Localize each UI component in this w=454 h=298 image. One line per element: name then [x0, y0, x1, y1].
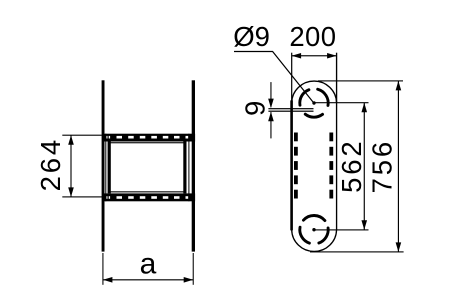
svg-text:562: 562 [336, 139, 367, 193]
svg-text:a: a [140, 248, 157, 281]
dimension 264: top extension line [62, 135, 102, 136]
dimension 9: dimension line upper segment [270, 82, 271, 107]
svg-text:9: 9 [240, 101, 271, 116]
dimension 756: arrow up [396, 81, 402, 91]
dimension 756: dimension line [398, 81, 399, 252]
side rail left [102, 80, 105, 251]
dimension 562: arrow down [361, 220, 367, 230]
svg-text:756: 756 [367, 139, 398, 193]
dimension a: left extension line [102, 253, 103, 285]
plate left edge (thick) [290, 100, 293, 230]
dimension 9: lower extension line [268, 111, 313, 112]
dimension a: dimension line [103, 279, 193, 280]
dimension 200: arrow right [327, 53, 337, 59]
label Ø9 leader line [234, 52, 313, 103]
plate slots right column [329, 133, 333, 199]
rung bottom flange (perforated band) [102, 193, 195, 201]
dimension 264: dimension line [70, 135, 71, 197]
rung end edge line left [105, 134, 106, 202]
side rail right [192, 80, 195, 251]
top hole arcs [300, 89, 328, 117]
svg-text:200: 200 [289, 21, 336, 52]
plate top cap arc [292, 81, 337, 103]
rung end edge line right [188, 134, 189, 202]
rung top flange (perforated band) [102, 134, 195, 142]
plate right edge + 200 right extension line [336, 53, 337, 230]
dimension 200: arrow left [292, 53, 302, 59]
dimension 9: arrow down [268, 99, 274, 109]
dimension 562: arrow up [361, 103, 367, 113]
dimension 9: arrow up [268, 112, 274, 122]
rung web top edge [108, 142, 184, 143]
dimension 562: top extension line [314, 102, 369, 103]
bottom hole arcs [300, 216, 328, 244]
dimension 9: upper extension line [268, 108, 313, 109]
top hole center dot [312, 101, 315, 104]
dimension 562: dimension line [364, 103, 365, 230]
svg-text:Ø9: Ø9 [233, 21, 270, 52]
dimension 264: arrow up [68, 135, 74, 145]
dimension 9: dimension line lower segment [270, 112, 271, 138]
200 left extension line [291, 53, 292, 102]
dimension a: arrow right [184, 277, 194, 283]
svg-text:264: 264 [35, 137, 66, 191]
dimension 756: bottom extension line [310, 251, 404, 252]
dimension 756: arrow down [396, 242, 402, 252]
plate slots left column [294, 133, 298, 199]
rung top flange perforation dashes [106, 136, 188, 139]
dimension a: right extension line [193, 253, 194, 285]
dimension 264: bottom extension line [62, 196, 103, 197]
rung side wall right [183, 142, 186, 194]
dimension 264: arrow down [68, 187, 74, 197]
rung web bottom edge [108, 191, 184, 192]
rung bottom flange perforation dashes [106, 196, 188, 199]
rung side wall left [108, 142, 111, 194]
dimension 200: dimension line [292, 55, 337, 56]
dimension 756: top extension line [318, 80, 403, 81]
bottom hole center dot [312, 228, 315, 231]
plate bottom cap arc [292, 230, 337, 252]
dimension a: arrow left [103, 277, 113, 283]
dimension 562: bottom extension line [314, 229, 369, 230]
